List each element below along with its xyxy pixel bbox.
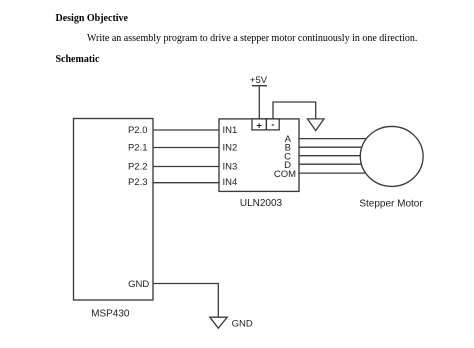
heading: Design Objective [56,13,129,24]
svg-text:Stepper Motor: Stepper Motor [359,199,423,210]
wire - terminal to top ground [273,102,316,119]
svg-text:MSP430: MSP430 [91,309,130,320]
wire B to motor [299,146,370,148]
+ terminal box [252,119,266,131]
MSP430 box [74,119,154,301]
wire GND to bottom ground [153,284,218,318]
svg-text:GND: GND [232,319,253,330]
svg-text:P2.3: P2.3 [128,177,148,188]
svg-text:+: + [256,120,262,131]
svg-text:P2.1: P2.1 [128,143,148,154]
ground (bottom) [210,317,227,328]
body text [87,33,417,44]
svg-text:IN4: IN4 [223,177,238,188]
op IC U1 ULN2003 box [219,119,299,191]
+5V supply label [250,75,268,86]
svg-text:GND: GND [128,279,149,290]
wire A to motor [299,138,370,140]
svg-text:COM: COM [274,169,296,180]
wire C to motor [299,155,370,157]
svg-text:IN1: IN1 [223,125,238,136]
svg-text:+5V: +5V [250,75,268,86]
svg-text:ULN2003: ULN2003 [240,198,283,209]
wire D to motor [299,163,370,165]
- terminal box [266,119,279,130]
svg-text:IN2: IN2 [223,143,238,154]
wire COM to motor [299,172,370,174]
svg-text:P2.2: P2.2 [128,161,148,172]
wire P2.1 to IN2 [153,147,219,149]
wire P2.2 to IN3 [153,166,219,168]
ground (top right) [308,119,325,131]
wire P2.3 to IN4 [153,182,219,184]
wire P2.0 to IN1 [153,129,219,131]
heading: Schematic [56,54,100,65]
svg-text:IN3: IN3 [223,161,238,172]
wire +5V to + terminal [258,86,260,119]
stepper motor M1 [360,126,423,186]
svg-text:P2.0: P2.0 [128,125,148,136]
svg-text:-: - [271,119,274,130]
